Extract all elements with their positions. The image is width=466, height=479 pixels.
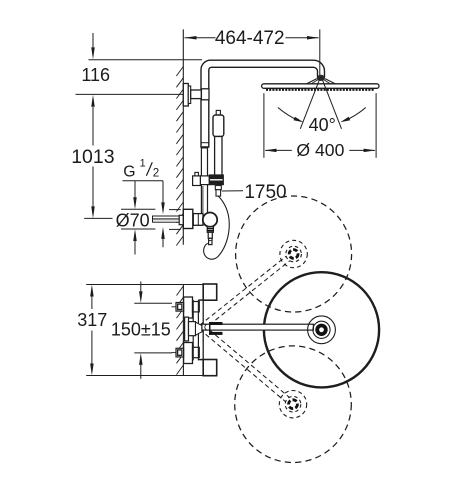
- svg-text:Ø 400: Ø 400: [296, 140, 344, 160]
- svg-text:1750: 1750: [244, 182, 286, 203]
- svg-text:2: 2: [153, 166, 159, 179]
- svg-text:116: 116: [81, 65, 110, 85]
- svg-text:1: 1: [140, 158, 146, 170]
- svg-text:G: G: [123, 163, 135, 180]
- svg-text:317: 317: [77, 310, 107, 330]
- svg-text:150±15: 150±15: [111, 320, 171, 340]
- svg-text:40°: 40°: [309, 115, 336, 135]
- svg-text:1013: 1013: [71, 146, 114, 168]
- svg-text:Ø70: Ø70: [116, 210, 150, 230]
- svg-text:464-472: 464-472: [215, 28, 285, 49]
